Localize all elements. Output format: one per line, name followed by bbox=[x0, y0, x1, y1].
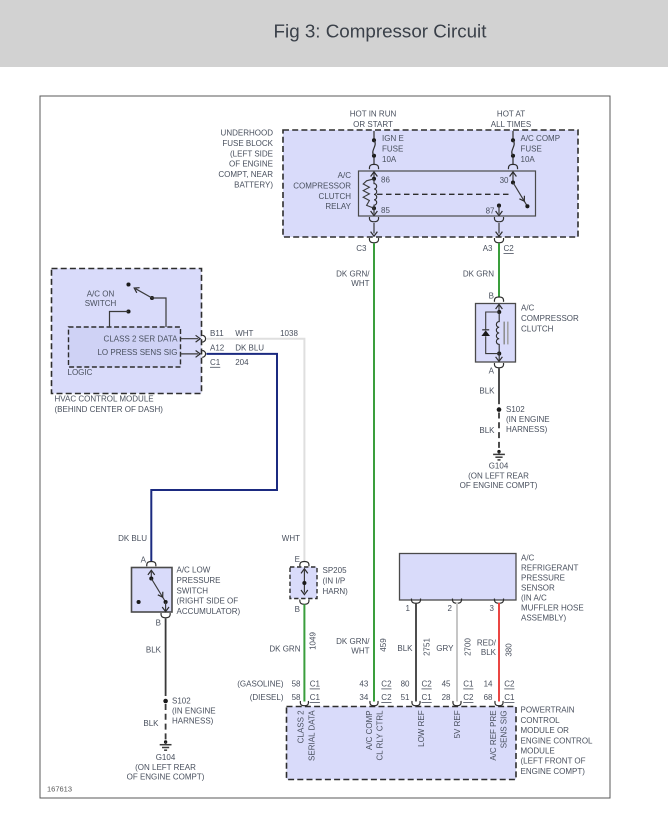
svg-text:C1: C1 bbox=[310, 693, 321, 702]
svg-text:BLK: BLK bbox=[479, 387, 495, 396]
svg-text:MODULE: MODULE bbox=[521, 747, 555, 756]
svg-text:A/C COMP: A/C COMP bbox=[521, 134, 561, 143]
svg-text:SWITCH: SWITCH bbox=[85, 299, 117, 308]
svg-text:IGN E: IGN E bbox=[382, 134, 404, 143]
svg-text:COMPT, NEAR: COMPT, NEAR bbox=[218, 170, 273, 179]
svg-text:RELAY: RELAY bbox=[325, 202, 351, 211]
svg-text:C1: C1 bbox=[422, 693, 433, 702]
svg-text:S102: S102 bbox=[506, 405, 525, 414]
svg-text:C2: C2 bbox=[504, 244, 515, 253]
svg-text:2700: 2700 bbox=[463, 638, 472, 656]
svg-text:HOT AT: HOT AT bbox=[497, 110, 525, 119]
svg-text:ASSEMBLY): ASSEMBLY) bbox=[521, 614, 567, 623]
svg-text:RED/: RED/ bbox=[477, 639, 497, 648]
svg-text:OF ENGINE COMPT): OF ENGINE COMPT) bbox=[460, 481, 538, 490]
svg-text:A/C LOW: A/C LOW bbox=[177, 566, 211, 575]
svg-text:HARNESS): HARNESS) bbox=[172, 717, 214, 726]
svg-text:(IN A/C: (IN A/C bbox=[521, 594, 547, 603]
svg-text:C2: C2 bbox=[504, 680, 515, 689]
svg-text:DK BLU: DK BLU bbox=[235, 343, 264, 352]
svg-text:B: B bbox=[295, 605, 300, 614]
svg-text:86: 86 bbox=[381, 176, 390, 185]
svg-text:CLUTCH: CLUTCH bbox=[521, 324, 554, 333]
svg-text:BLK: BLK bbox=[146, 646, 162, 655]
svg-text:LOW REF: LOW REF bbox=[417, 710, 426, 747]
svg-text:DK GRN: DK GRN bbox=[463, 270, 494, 279]
svg-text:HVAC CONTROL MODULE: HVAC CONTROL MODULE bbox=[55, 395, 154, 404]
svg-text:A3: A3 bbox=[483, 244, 493, 253]
svg-text:A12: A12 bbox=[210, 343, 225, 352]
svg-text:2751: 2751 bbox=[422, 638, 431, 656]
svg-text:C2: C2 bbox=[463, 693, 474, 702]
svg-text:ENGINE CONTROL: ENGINE CONTROL bbox=[521, 736, 594, 745]
svg-text:COMPRESSOR: COMPRESSOR bbox=[521, 314, 579, 323]
svg-text:OF ENGINE: OF ENGINE bbox=[229, 160, 273, 169]
svg-text:2: 2 bbox=[448, 604, 453, 613]
svg-text:(ON LEFT REAR: (ON LEFT REAR bbox=[468, 472, 529, 481]
svg-text:(LEFT SIDE: (LEFT SIDE bbox=[230, 149, 273, 158]
svg-text:43: 43 bbox=[359, 680, 368, 689]
svg-text:BLK: BLK bbox=[481, 648, 497, 657]
svg-text:C1: C1 bbox=[463, 680, 474, 689]
svg-text:A/C COMP: A/C COMP bbox=[365, 710, 374, 750]
svg-text:(IN ENGINE: (IN ENGINE bbox=[506, 415, 550, 424]
svg-text:B11: B11 bbox=[210, 329, 224, 338]
svg-text:1038: 1038 bbox=[280, 329, 298, 338]
svg-text:OF ENGINE COMPT): OF ENGINE COMPT) bbox=[127, 773, 205, 782]
svg-text:A/C: A/C bbox=[338, 171, 352, 180]
svg-text:MUFFLER HOSE: MUFFLER HOSE bbox=[521, 604, 584, 613]
svg-text:HARN): HARN) bbox=[323, 587, 349, 596]
svg-text:SERIAL DATA: SERIAL DATA bbox=[307, 710, 316, 761]
svg-text:(RIGHT SIDE OF: (RIGHT SIDE OF bbox=[177, 597, 239, 606]
svg-text:C2: C2 bbox=[381, 693, 392, 702]
svg-text:B: B bbox=[156, 619, 161, 628]
svg-text:1: 1 bbox=[406, 604, 411, 613]
svg-text:A: A bbox=[489, 367, 495, 376]
svg-text:5V REF: 5V REF bbox=[453, 710, 462, 738]
svg-text:Fig 3: Compressor Circuit: Fig 3: Compressor Circuit bbox=[274, 21, 488, 42]
svg-text:WHT: WHT bbox=[282, 534, 300, 543]
svg-text:ALL TIMES: ALL TIMES bbox=[491, 120, 531, 129]
svg-text:BATTERY): BATTERY) bbox=[234, 181, 273, 190]
svg-text:45: 45 bbox=[442, 680, 451, 689]
svg-text:380: 380 bbox=[504, 643, 513, 657]
svg-text:C1: C1 bbox=[504, 693, 515, 702]
svg-text:30: 30 bbox=[500, 176, 509, 185]
svg-text:(ON LEFT REAR: (ON LEFT REAR bbox=[135, 763, 196, 772]
svg-text:(LEFT FRONT OF: (LEFT FRONT OF bbox=[521, 757, 586, 766]
svg-text:CONTROL: CONTROL bbox=[521, 716, 561, 725]
svg-text:C1: C1 bbox=[310, 680, 321, 689]
svg-text:CLASS 2: CLASS 2 bbox=[297, 710, 306, 743]
svg-text:A/C: A/C bbox=[521, 304, 535, 313]
svg-text:S102: S102 bbox=[172, 697, 191, 706]
svg-text:COMPRESSOR: COMPRESSOR bbox=[293, 181, 351, 190]
svg-text:A/C: A/C bbox=[521, 554, 535, 563]
svg-text:FUSE BLOCK: FUSE BLOCK bbox=[222, 139, 273, 148]
svg-text:HOT IN RUN: HOT IN RUN bbox=[350, 110, 397, 119]
svg-text:FUSE: FUSE bbox=[521, 144, 542, 153]
svg-text:SENS SIG: SENS SIG bbox=[500, 710, 509, 748]
svg-text:HARNESS): HARNESS) bbox=[506, 425, 548, 434]
svg-text:85: 85 bbox=[381, 206, 390, 215]
svg-text:(GASOLINE): (GASOLINE) bbox=[237, 680, 284, 689]
svg-text:CL RLY CTRL: CL RLY CTRL bbox=[376, 710, 385, 761]
svg-text:51: 51 bbox=[401, 693, 410, 702]
svg-text:204: 204 bbox=[235, 358, 249, 367]
svg-text:10A: 10A bbox=[382, 155, 397, 164]
svg-text:C3: C3 bbox=[356, 244, 367, 253]
svg-text:PRESSURE: PRESSURE bbox=[177, 576, 221, 585]
svg-text:DK GRN: DK GRN bbox=[269, 645, 300, 654]
svg-text:E: E bbox=[295, 555, 300, 564]
svg-text:LOGIC: LOGIC bbox=[68, 368, 93, 377]
svg-text:UNDERHOOD: UNDERHOOD bbox=[221, 129, 274, 138]
svg-text:SP205: SP205 bbox=[323, 566, 348, 575]
svg-text:PRESSURE: PRESSURE bbox=[521, 574, 565, 583]
svg-text:167613: 167613 bbox=[47, 785, 72, 794]
svg-text:DK BLU: DK BLU bbox=[118, 534, 147, 543]
svg-text:1049: 1049 bbox=[308, 632, 317, 650]
svg-text:B: B bbox=[489, 292, 494, 301]
svg-text:G104: G104 bbox=[156, 753, 176, 762]
svg-text:A: A bbox=[141, 556, 147, 565]
svg-text:DK GRN/: DK GRN/ bbox=[336, 270, 370, 279]
svg-text:459: 459 bbox=[379, 638, 388, 652]
svg-text:MODULE OR: MODULE OR bbox=[521, 726, 570, 735]
svg-text:ACCUMULATOR): ACCUMULATOR) bbox=[177, 607, 241, 616]
svg-text:BLK: BLK bbox=[479, 426, 495, 435]
svg-text:58: 58 bbox=[292, 693, 301, 702]
svg-text:WHT: WHT bbox=[351, 647, 369, 656]
svg-text:FUSE: FUSE bbox=[382, 144, 403, 153]
svg-text:SWITCH: SWITCH bbox=[177, 586, 209, 595]
svg-text:87: 87 bbox=[486, 207, 495, 216]
svg-text:SENSOR: SENSOR bbox=[521, 584, 555, 593]
svg-text:(DIESEL): (DIESEL) bbox=[250, 693, 284, 702]
svg-text:(IN I/P: (IN I/P bbox=[323, 577, 346, 586]
svg-text:A/C REF PRE: A/C REF PRE bbox=[489, 710, 498, 760]
svg-text:10A: 10A bbox=[521, 155, 536, 164]
svg-text:68: 68 bbox=[484, 693, 493, 702]
svg-text:C2: C2 bbox=[381, 680, 392, 689]
svg-text:G104: G104 bbox=[489, 462, 509, 471]
svg-text:CLUTCH: CLUTCH bbox=[319, 192, 352, 201]
svg-text:WHT: WHT bbox=[235, 329, 253, 338]
svg-text:WHT: WHT bbox=[351, 279, 369, 288]
svg-text:REFRIGERANT: REFRIGERANT bbox=[521, 564, 578, 573]
svg-text:OR START: OR START bbox=[353, 120, 393, 129]
svg-text:ENGINE COMPT): ENGINE COMPT) bbox=[521, 767, 586, 776]
svg-text:LO PRESS SENS SIG: LO PRESS SENS SIG bbox=[97, 348, 177, 357]
svg-text:80: 80 bbox=[401, 680, 410, 689]
svg-text:(BEHIND CENTER OF DASH): (BEHIND CENTER OF DASH) bbox=[55, 405, 164, 414]
svg-text:A/C ON: A/C ON bbox=[87, 290, 115, 299]
svg-text:DK GRN/: DK GRN/ bbox=[336, 637, 370, 646]
svg-text:28: 28 bbox=[442, 693, 451, 702]
svg-text:34: 34 bbox=[359, 693, 368, 702]
svg-text:POWERTRAIN: POWERTRAIN bbox=[521, 706, 575, 715]
svg-text:BLK: BLK bbox=[143, 719, 159, 728]
svg-text:58: 58 bbox=[292, 680, 301, 689]
svg-text:GRY: GRY bbox=[436, 644, 454, 653]
svg-text:(IN ENGINE: (IN ENGINE bbox=[172, 707, 216, 716]
svg-text:CLASS 2 SER DATA: CLASS 2 SER DATA bbox=[104, 335, 179, 344]
svg-text:14: 14 bbox=[484, 680, 493, 689]
svg-text:BLK: BLK bbox=[397, 644, 413, 653]
svg-text:C2: C2 bbox=[422, 680, 433, 689]
svg-text:3: 3 bbox=[490, 604, 495, 613]
svg-text:C1: C1 bbox=[210, 358, 221, 367]
